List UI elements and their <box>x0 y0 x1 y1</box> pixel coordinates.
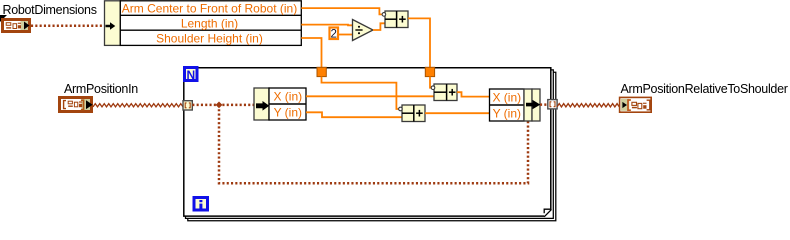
main frame top+right <box>184 68 551 209</box>
frame 3 <box>188 72 556 221</box>
unbundle-by-name X/Y inside loop <box>254 88 306 120</box>
for loop frame <box>184 68 556 221</box>
svg-text:X (in): X (in) <box>273 90 302 104</box>
wire Shoulder Height row to left tunnel <box>301 38 321 68</box>
tunnel right (shoulder X offset) on top border <box>425 67 434 76</box>
svg-text:ArmPositionIn: ArmPositionIn <box>64 82 138 96</box>
frame 2 <box>186 70 554 219</box>
wire 2 to divide bottom input <box>339 34 353 36</box>
wire cluster dotted: RobotDimensions to unbundle <box>31 25 105 28</box>
wire left tunnel to add3 inverted input <box>322 77 399 109</box>
wire divide output to add1 <box>373 23 385 30</box>
main frame left+bottom <box>184 68 544 216</box>
svg-text:Length (in): Length (in) <box>181 17 238 31</box>
wire cluster dotted branch down, along bottom, up to bundle <box>219 105 528 183</box>
unbundle-by-name RobotDimensions <box>105 1 302 46</box>
fold corner <box>544 209 551 217</box>
junction on cluster wire <box>216 102 223 109</box>
tunnel left (Shoulder Height) on top border <box>317 67 326 76</box>
wire cluster dotted inside loop: tunnel to unbundle2 <box>192 104 254 107</box>
svg-text:RobotDimensions: RobotDimensions <box>3 3 97 17</box>
indicator ArmPositionRelativeToShoulder (array of cluster) <box>620 97 652 112</box>
wire Length row to divide top input <box>301 24 352 27</box>
control ArmPositionIn (array of cluster terminal) <box>58 96 93 113</box>
svg-text:Y (in): Y (in) <box>274 106 302 120</box>
wire cluster dotted: bundle to output tunnel <box>540 103 548 106</box>
add1 compound arithmetic (subtract) <box>382 11 408 28</box>
wire X to add2 lower input <box>306 95 434 97</box>
loop count terminal N <box>183 66 199 82</box>
svg-text:Arm Center to Front of Robot (: Arm Center to Front of Robot (in) <box>122 2 297 16</box>
divide U_div <box>353 20 374 41</box>
wire add3 output to bundle Y <box>425 112 490 114</box>
output tunnel (auto-indexing) on right border <box>548 100 557 109</box>
wire Y to add3 lower input <box>306 112 402 117</box>
svg-text:ArmPositionRelativeToShoulder: ArmPositionRelativeToShoulder <box>621 82 788 96</box>
svg-text:X (in): X (in) <box>492 91 521 105</box>
wire add2 output to bundle X <box>457 92 490 96</box>
wire Arm Center row to add1 inverted input <box>301 8 382 14</box>
wire array-of-cluster zigzag: tunnel to indicator <box>557 104 619 107</box>
constant 2 <box>330 28 339 41</box>
svg-text:Shoulder Height (in): Shoulder Height (in) <box>156 31 263 45</box>
svg-text:N: N <box>186 68 195 82</box>
svg-text:2: 2 <box>330 28 336 40</box>
add2 compound arithmetic (X - offset) <box>431 84 457 101</box>
add3 compound arithmetic (Y - offset) <box>399 105 425 122</box>
loop iteration terminal i <box>193 196 210 212</box>
wire array-of-cluster zigzag: ArmPositionIn to loop tunnel <box>93 104 183 107</box>
control RobotDimensions (cluster terminal) <box>0 15 31 33</box>
input tunnel (auto-indexing) on left border <box>183 101 192 110</box>
bundle-by-name X/Y inside loop <box>490 89 541 121</box>
svg-text:Y (in): Y (in) <box>493 107 521 121</box>
wire add1 output to right tunnel <box>408 18 430 68</box>
wire right tunnel to add2 inverted input <box>430 77 431 88</box>
